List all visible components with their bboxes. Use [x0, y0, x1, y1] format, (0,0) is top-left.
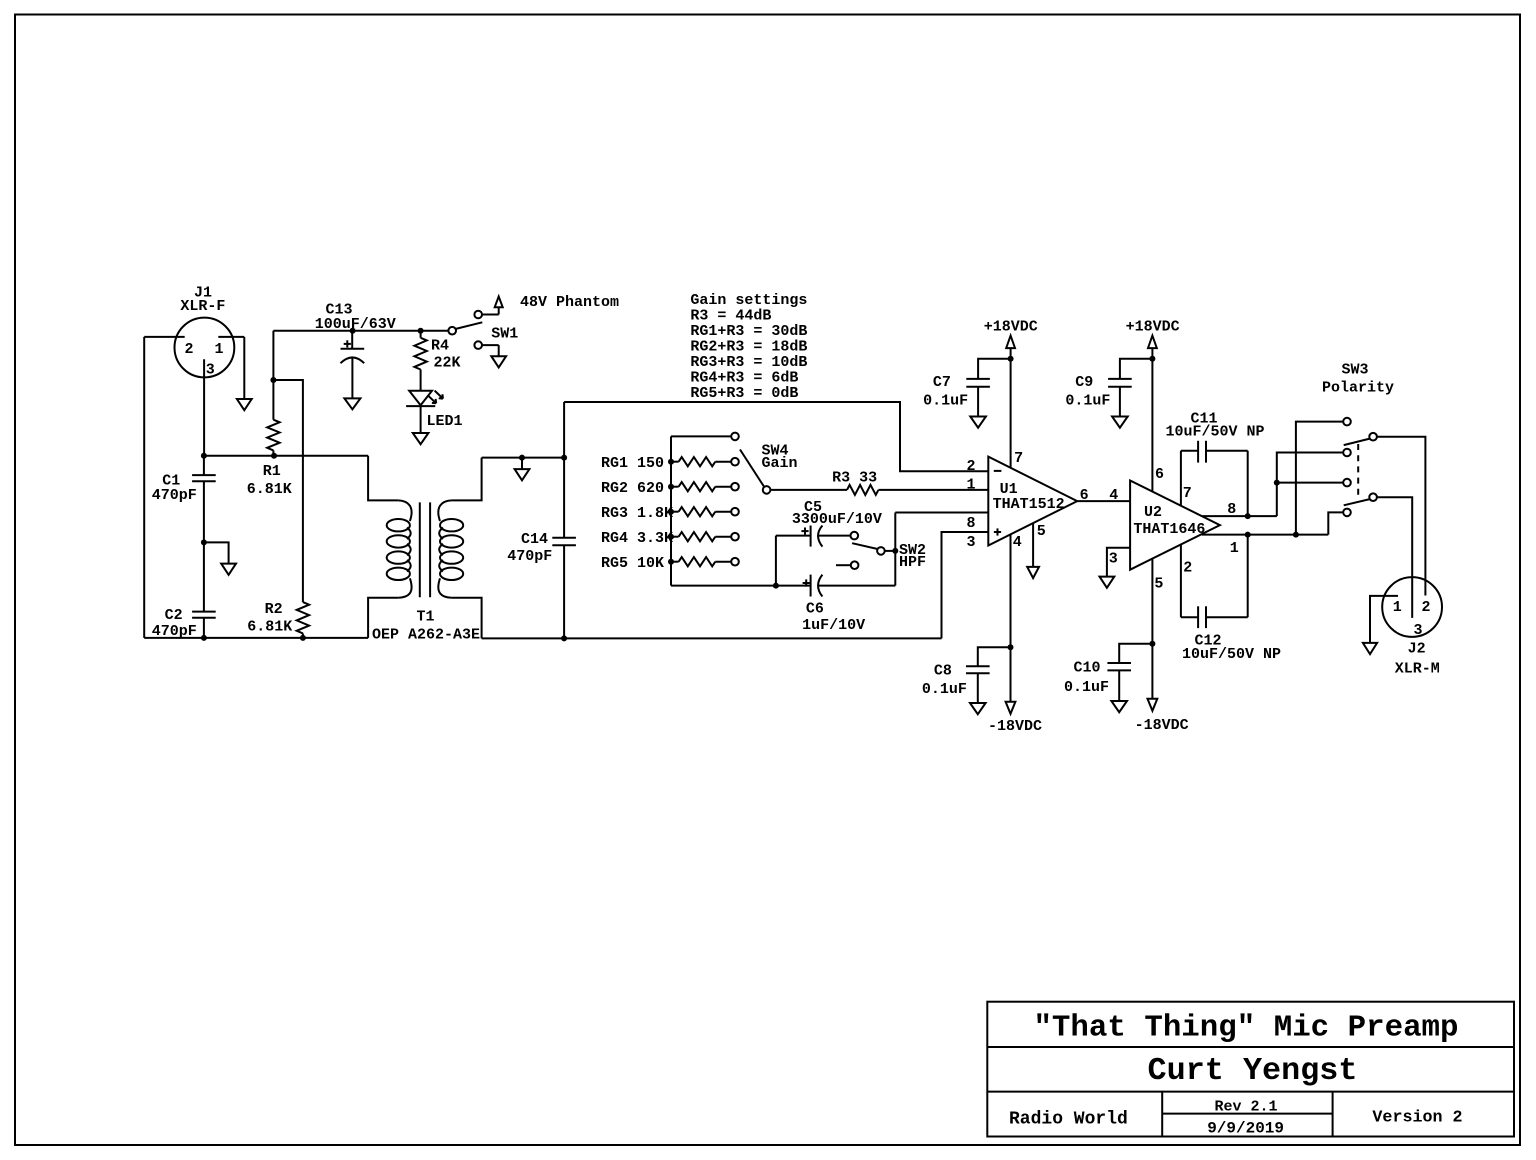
wire U1 output to U2 input [1077, 500, 1130, 502]
junction RG bus RG5 [668, 559, 674, 565]
wire J1 pin 2 down to lower rail [143, 337, 145, 638]
svg-text:7: 7 [1014, 450, 1023, 467]
svg-text:7: 7 [1183, 485, 1192, 502]
capacitor C6 (polarized) [810, 575, 812, 597]
switch SW1 common contact [448, 327, 456, 335]
wire SW4 common to R3 [770, 489, 847, 491]
wire U2 pin 7 riser [1180, 451, 1182, 506]
ground below C7 [970, 417, 986, 428]
junction C8 tap [1008, 644, 1014, 650]
+48V phantom supply arrow [495, 297, 503, 308]
SW3 contact 2 [1343, 449, 1351, 457]
wire LED1 cathode down [420, 406, 422, 433]
junction pin1 branch [1293, 532, 1299, 538]
SW4 contact for RG3 [731, 508, 739, 516]
svg-text:2: 2 [1421, 599, 1430, 616]
ground at U2 pin 3 [1100, 577, 1115, 588]
-18VDC arrow U2 [1148, 699, 1158, 711]
svg-text:XLR-F: XLR-F [180, 298, 225, 315]
wire SW1 upper contact to +48V [482, 314, 499, 316]
wire U2 pin 3 to ground [1107, 548, 1130, 577]
SW1 lower contact [474, 341, 482, 349]
LED1 arrows [428, 395, 436, 403]
wire C5 branch riser [775, 536, 777, 586]
svg-text:0.1uF: 0.1uF [1065, 392, 1110, 409]
wire secondary bottom rail [482, 637, 942, 639]
wire rail up to U1 pin3 [942, 532, 989, 638]
svg-text:R3 = 44dB: R3 = 44dB [690, 307, 771, 324]
junction C11/pin8 [1245, 513, 1251, 519]
capacitor C11 [1181, 450, 1198, 452]
svg-text:Curt Yengst: Curt Yengst [1148, 1053, 1358, 1089]
wire pin1 riser to contact1 [1296, 422, 1343, 535]
wire RG bus vertical [670, 436, 672, 585]
SW3 throw B [1369, 493, 1377, 501]
junction RG bus RG1 [668, 459, 674, 465]
title block vertical divider left [1161, 1092, 1163, 1137]
junction C7 tap [1008, 356, 1014, 362]
svg-text:6: 6 [1155, 466, 1164, 483]
wire C12 up to pin 1 line [1247, 535, 1249, 618]
title block divider 2 [987, 1091, 1514, 1093]
svg-text:R3 33: R3 33 [832, 470, 877, 487]
svg-text:10uF/50V NP: 10uF/50V NP [1182, 646, 1281, 663]
svg-text:R4: R4 [431, 338, 449, 355]
svg-text:1: 1 [214, 341, 223, 358]
capacitor C9 [1120, 359, 1153, 379]
svg-text:OEP A262-A3E: OEP A262-A3E [372, 626, 480, 643]
wire branch to contact3 [1277, 482, 1343, 484]
wire U2 pin 2 riser [1180, 545, 1182, 618]
junction J1 pin3 / C1 [201, 453, 207, 459]
svg-text:J2: J2 [1408, 641, 1426, 658]
junction C2 bottom on rail [201, 635, 207, 641]
wire U1 pin 4 down [1010, 535, 1012, 702]
svg-text:9/9/2019: 9/9/2019 [1207, 1119, 1284, 1137]
resistor RG3 [671, 511, 679, 513]
svg-text:RG3 1.8K: RG3 1.8K [601, 505, 673, 522]
junction R1 bottom [271, 453, 277, 459]
SW4 lever [740, 450, 764, 487]
ground below LED1 [413, 433, 429, 444]
switch SW2 common [877, 547, 885, 555]
U1 minus input mark [994, 470, 1002, 472]
svg-text:RG5 10K: RG5 10K [601, 555, 664, 572]
svg-text:XLR-M: XLR-M [1395, 660, 1440, 677]
wire throw A to J2 pin 2 [1377, 437, 1426, 596]
wire T1 secondary top lead [452, 458, 482, 501]
ground below C10 [1111, 701, 1127, 712]
svg-text:470pF: 470pF [507, 548, 552, 565]
SW3 lever A [1344, 439, 1370, 446]
svg-text:48V Phantom: 48V Phantom [520, 294, 619, 311]
resistor RG4 [671, 536, 679, 538]
wire riser C6 to U1 pin 8 [894, 513, 896, 586]
wire throw B to J2 pin 3 [1377, 497, 1412, 618]
wire SW1 lower contact to ground [482, 344, 499, 346]
junction C9 tap [1149, 356, 1155, 362]
junction RG bus RG3 [668, 509, 674, 515]
transformer T1 core [419, 502, 421, 597]
title block divider 1 [987, 1046, 1514, 1048]
wire pin8 riser [1277, 453, 1343, 517]
resistor R2 [297, 602, 309, 633]
svg-text:100uF/63V: 100uF/63V [315, 316, 396, 333]
capacitor C1 [203, 456, 205, 475]
SW4 top contact [731, 433, 739, 441]
wire riser to upper rail [563, 402, 565, 458]
svg-text:3: 3 [966, 534, 975, 551]
wire J1 pin 2 stub [144, 336, 185, 338]
junction C14 bottom [561, 635, 567, 641]
wire midpoint ground stub [204, 542, 229, 563]
svg-text:Version 2: Version 2 [1372, 1109, 1462, 1128]
ground at SW1 lower contact [491, 356, 506, 367]
svg-text:RG2 620: RG2 620 [601, 480, 664, 497]
junction secondary-top ground stub [519, 455, 525, 461]
wire pin3 node to transformer [204, 455, 368, 457]
svg-text:1uF/10V: 1uF/10V [802, 617, 865, 634]
svg-text:2: 2 [966, 458, 975, 475]
svg-text:1: 1 [1230, 540, 1239, 557]
ground below C8 [970, 703, 986, 714]
SW3 gang link (dashed) [1357, 444, 1359, 496]
SW4 contact for RG2 [731, 483, 739, 491]
capacitor C2 [203, 542, 205, 611]
SW3 contact 4 [1343, 509, 1351, 517]
wire T1 primary top lead [368, 456, 398, 501]
svg-text:R1: R1 [263, 463, 281, 480]
svg-text:4: 4 [1013, 534, 1022, 551]
connector J2 XLR-M body [1382, 577, 1442, 637]
svg-text:1: 1 [1393, 599, 1402, 616]
wire SW4 top stub [671, 435, 731, 437]
SW1 lever [455, 322, 482, 329]
svg-text:SW3: SW3 [1341, 362, 1368, 379]
title block frame [987, 1002, 1514, 1137]
junction C10 tap [1149, 641, 1155, 647]
svg-text:THAT1646: THAT1646 [1133, 521, 1205, 538]
wire R3 to U1 pin 1 [878, 489, 988, 491]
junction pin8 branch [1274, 480, 1280, 486]
+18VDC arrow U1 [1006, 336, 1015, 349]
resistor RG1 [671, 461, 679, 463]
switch SW4 common [763, 486, 771, 494]
capacitor C5 (polarized) [776, 535, 811, 537]
wire J1 pin 1 stub [218, 336, 244, 338]
svg-text:RG1 150: RG1 150 [601, 455, 664, 472]
svg-text:RG2+R3 = 18dB: RG2+R3 = 18dB [690, 339, 807, 356]
connector J1 XLR-F body [175, 318, 235, 378]
U1 plus input mark [994, 531, 1001, 533]
ground at J1 pin 1 [237, 399, 252, 410]
wire +18 to pin7 node [1010, 348, 1012, 359]
wire C11 down to pin 8 line [1247, 451, 1249, 516]
wire J2 pin 1 to ground [1370, 596, 1398, 643]
svg-text:C8: C8 [934, 662, 952, 679]
svg-text:C7: C7 [933, 374, 951, 391]
svg-text:10uF/50V NP: 10uF/50V NP [1165, 424, 1264, 441]
SW2 open contact [836, 564, 851, 566]
wire RG bus bottom rail [671, 585, 811, 587]
ground at C1/C2 midpoint [221, 564, 236, 575]
wire U1 pin 7 supply [1010, 359, 1012, 468]
capacitor C8 [978, 647, 1011, 666]
op-amp U1 THAT1512 body [988, 457, 1077, 546]
svg-text:U2: U2 [1144, 504, 1162, 521]
C13 plus sign [344, 343, 351, 345]
wire T1 secondary bottom lead [452, 598, 482, 639]
C5 plus sign [801, 530, 808, 532]
title block vertical divider right [1332, 1092, 1334, 1137]
svg-text:6.81K: 6.81K [247, 481, 292, 498]
capacitor C14 [563, 458, 565, 538]
junction C13 tap [350, 328, 356, 334]
svg-text:R2: R2 [265, 601, 283, 618]
wire U2 pin 6 supply [1151, 359, 1153, 492]
SW2 lever [852, 543, 878, 549]
svg-text:22K: 22K [433, 355, 460, 372]
ground below C9 [1112, 417, 1128, 428]
wire U2 pin 1 line [1202, 534, 1328, 536]
svg-text:3: 3 [1109, 550, 1118, 567]
svg-text:RG3+R3 = 10dB: RG3+R3 = 10dB [690, 354, 807, 371]
junction SW2 on riser [892, 548, 898, 554]
svg-text:0.1uF: 0.1uF [1064, 679, 1109, 696]
junction C1/C2 midpoint [201, 539, 207, 545]
SW3 lever B [1344, 499, 1370, 505]
ground below C13 [344, 398, 360, 409]
junction R4 tap [418, 328, 424, 334]
junction RG bus RG4 [668, 534, 674, 540]
op-amp U2 THAT1646 body [1130, 481, 1220, 570]
svg-text:3: 3 [206, 362, 215, 379]
wire lower rail (pin2 line) [144, 637, 368, 639]
svg-text:RG1+R3 = 30dB: RG1+R3 = 30dB [690, 323, 807, 340]
ground at J2 pin 1 [1363, 643, 1377, 654]
wire U2 pin 5 down [1151, 559, 1153, 699]
wire U2 pin 8 line [1202, 515, 1277, 517]
svg-text:Radio World: Radio World [1009, 1109, 1128, 1129]
svg-text:SW1: SW1 [491, 325, 518, 342]
LED1 diode [409, 391, 432, 406]
wire phantom rail [272, 331, 274, 380]
wire J1 pin 3 down [203, 359, 205, 455]
junction C5 branch [773, 583, 779, 589]
svg-text:1: 1 [966, 477, 975, 494]
wire +18 to U2 pin6 node [1151, 348, 1153, 359]
svg-text:T1: T1 [416, 609, 434, 626]
junction C14 top [561, 455, 567, 461]
svg-text:+18VDC: +18VDC [984, 319, 1038, 336]
svg-text:C14: C14 [521, 531, 548, 548]
svg-text:3: 3 [1413, 622, 1422, 639]
svg-text:-18VDC: -18VDC [988, 718, 1042, 735]
svg-text:3300uF/10V: 3300uF/10V [792, 511, 882, 528]
ground at U1 pin 5 [1027, 567, 1039, 578]
+18VDC arrow U2 [1148, 336, 1157, 349]
svg-text:LED1: LED1 [426, 413, 462, 430]
SW2 throw contact (C5) [851, 532, 859, 540]
wire SW2 common stub [885, 550, 896, 552]
SW4 contact for RG5 [731, 558, 739, 566]
svg-text:5: 5 [1037, 523, 1046, 540]
svg-text:"That Thing" Mic Preamp: "That Thing" Mic Preamp [1033, 1011, 1458, 1046]
capacitor C12 [1181, 616, 1198, 618]
wire upper rail to U1 pin2 [564, 402, 988, 471]
capacitor C13 (polarized) [351, 331, 353, 349]
resistor RG2 [671, 486, 679, 488]
junction C12/pin1 [1245, 532, 1251, 538]
svg-text:+18VDC: +18VDC [1126, 319, 1180, 336]
junction RG bus RG2 [668, 484, 674, 490]
resistor R3 [847, 485, 878, 495]
ground on secondary top node [515, 469, 530, 480]
resistor RG5 [671, 561, 679, 563]
transformer T1 primary winding [398, 500, 411, 521]
svg-text:Rev 2.1: Rev 2.1 [1214, 1099, 1277, 1116]
svg-text:RG4 3.3K: RG4 3.3K [601, 530, 673, 547]
svg-text:C2: C2 [165, 607, 183, 624]
svg-text:8: 8 [966, 515, 975, 532]
-18VDC arrow U1 [1006, 702, 1016, 714]
svg-text:-18VDC: -18VDC [1135, 717, 1189, 734]
svg-text:C10: C10 [1073, 659, 1100, 676]
SW3 contact 3 [1343, 479, 1351, 487]
svg-text:C6: C6 [806, 601, 824, 618]
SW4 contact for RG1 [731, 458, 739, 466]
SW3 contact 1 [1343, 418, 1351, 426]
resistor R1 [272, 380, 274, 420]
wire J1 pin 1 down to ground [243, 337, 245, 399]
svg-text:2: 2 [1183, 560, 1192, 577]
SW1 upper contact (48V) [474, 311, 482, 319]
SW4 contact for RG4 [731, 533, 739, 541]
junction R2 bottom on rail [300, 635, 306, 641]
wire ground stub [521, 458, 523, 470]
capacitor C10 [1119, 644, 1152, 663]
wire phantom feed to R2 [273, 380, 303, 602]
capacitor C7 [978, 359, 1011, 379]
svg-text:0.1uF: 0.1uF [922, 681, 967, 698]
svg-text:470pF: 470pF [152, 487, 197, 504]
wire T1 primary bottom lead [368, 598, 398, 638]
svg-text:THAT1512: THAT1512 [993, 496, 1065, 513]
svg-text:6.81K: 6.81K [247, 618, 292, 635]
svg-text:Gain: Gain [762, 455, 798, 472]
svg-text:HPF: HPF [899, 554, 926, 571]
resistor R4 [420, 331, 422, 338]
svg-text:RG5+R3 = 0dB: RG5+R3 = 0dB [690, 385, 798, 402]
svg-text:C9: C9 [1075, 374, 1093, 391]
junction R1/R2 phantom feed [270, 377, 276, 383]
wire pin1 to contact4 [1328, 512, 1343, 534]
transformer T1 secondary winding [438, 500, 451, 521]
wire U1 pin 5 to ground [1032, 523, 1034, 567]
svg-text:2: 2 [184, 341, 193, 358]
svg-text:Polarity: Polarity [1322, 380, 1394, 397]
C6 plus sign [803, 582, 810, 584]
svg-text:0.1uF: 0.1uF [923, 392, 968, 409]
title block rev/date divider [1162, 1113, 1332, 1115]
SW3 throw A [1369, 433, 1377, 441]
svg-text:5: 5 [1154, 576, 1163, 593]
